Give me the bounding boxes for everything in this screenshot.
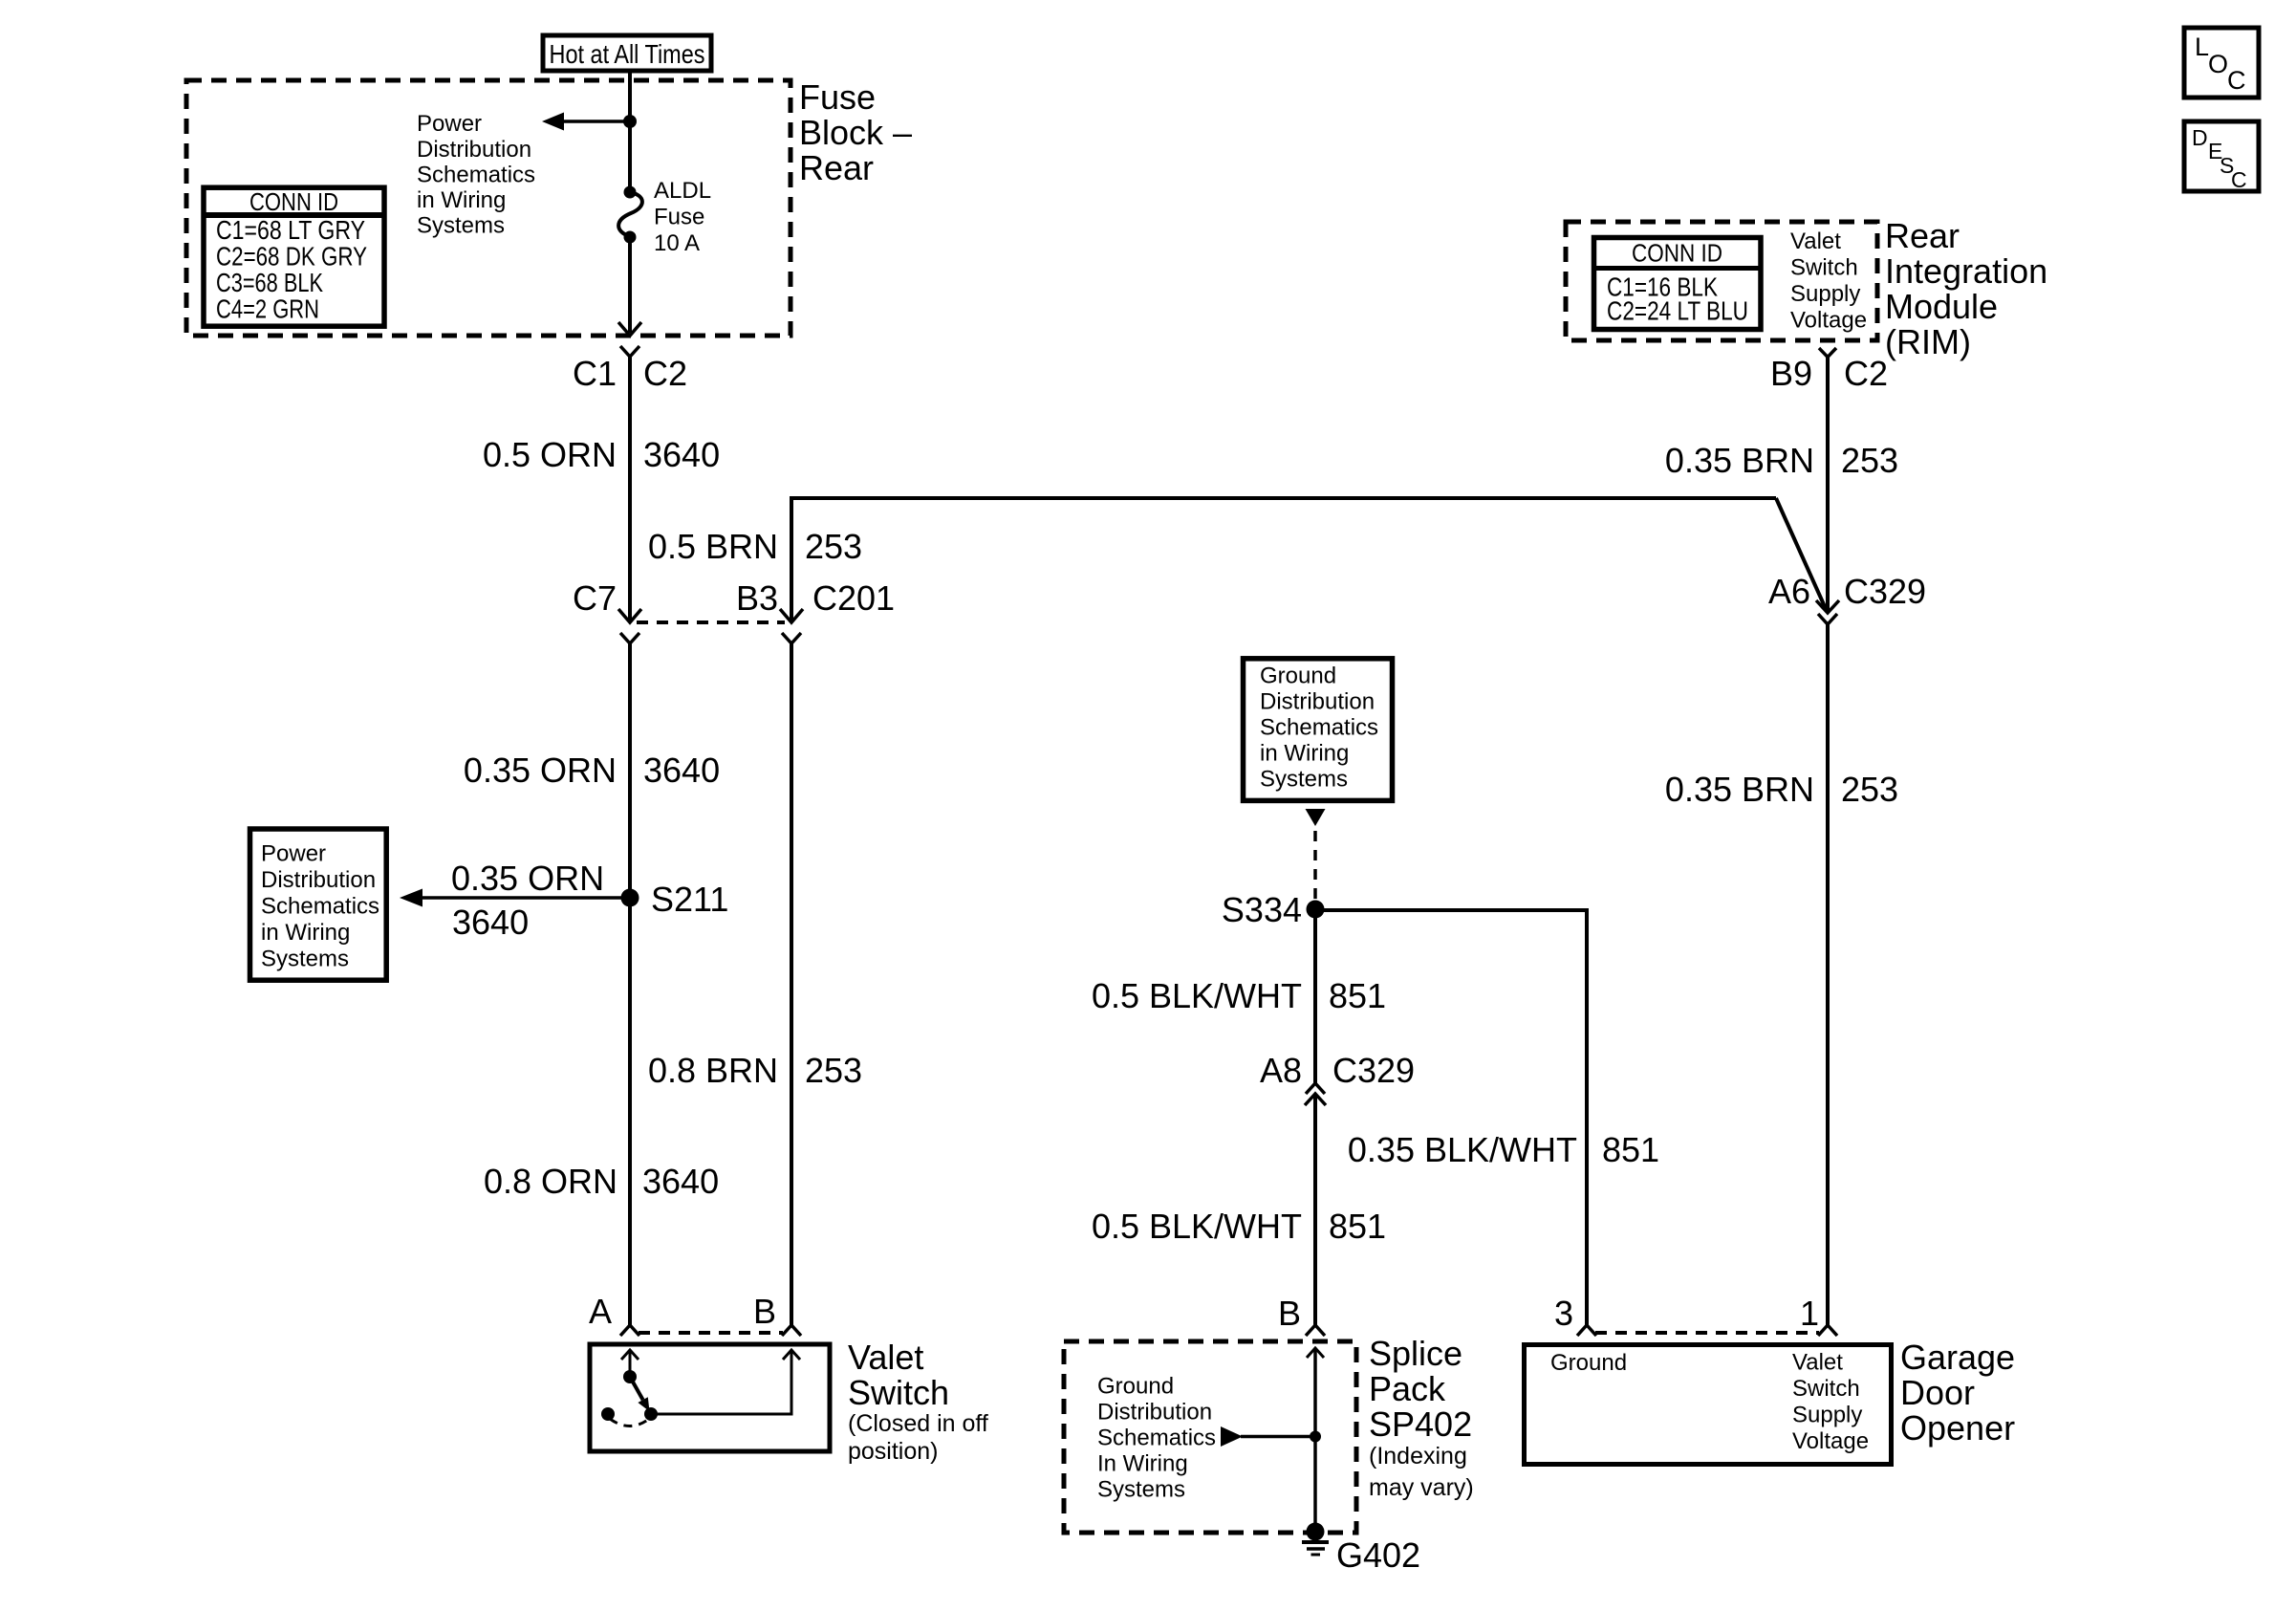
garage door opener box xyxy=(1525,1345,1892,1465)
label 0.35 ORN 3640 (branch) xyxy=(451,859,604,942)
svg-text:Supply: Supply xyxy=(1792,1403,1862,1428)
label power distribution schematics (fuse block) xyxy=(417,111,535,239)
svg-text:in Wiring: in Wiring xyxy=(261,920,350,946)
fuse F ALDL 10A xyxy=(618,186,642,244)
valet switch contact closed xyxy=(644,1407,658,1421)
svg-text:C2=68 DK GRY: C2=68 DK GRY xyxy=(216,242,367,272)
ground distribution schematics box (middle) xyxy=(1244,659,1393,801)
svg-text:0.5 BLK/WHT: 0.5 BLK/WHT xyxy=(1092,1207,1302,1246)
svg-text:Opener: Opener xyxy=(1900,1408,2015,1448)
svg-text:Power: Power xyxy=(417,111,482,137)
Hot at All Times box xyxy=(543,35,711,71)
svg-text:Systems: Systems xyxy=(1097,1477,1185,1503)
dashed wire ground distribution to S334 xyxy=(1313,831,1317,900)
arrow to ground distribution box xyxy=(1306,809,1326,826)
wire C7 to S211 xyxy=(628,643,632,898)
arrow at fuse block exit xyxy=(618,322,641,336)
svg-text:3640: 3640 xyxy=(643,435,720,474)
power distribution schematics box (left) xyxy=(250,829,387,980)
svg-text:C2: C2 xyxy=(643,354,687,393)
svg-text:Distribution: Distribution xyxy=(1097,1400,1212,1426)
svg-text:O: O xyxy=(2208,50,2228,78)
wire A6 to garage door opener pin 1 xyxy=(1826,624,1830,1325)
svg-text:CONN ID: CONN ID xyxy=(249,187,338,216)
svg-text:B: B xyxy=(1278,1294,1301,1333)
label 0.8 ORN 3640 xyxy=(484,1162,719,1201)
valet switch pole A terminal xyxy=(621,1350,639,1377)
wire A8 to splice pack B xyxy=(1313,1094,1317,1325)
pin 3 garage door opener xyxy=(1554,1294,1596,1336)
svg-text:0.35 ORN: 0.35 ORN xyxy=(451,859,604,898)
svg-text:Rear: Rear xyxy=(799,148,874,187)
arrow to power distribution schematics xyxy=(542,113,564,131)
fuse block dashed outline xyxy=(186,80,791,336)
svg-text:0.5 BRN: 0.5 BRN xyxy=(648,527,778,566)
wire C1 to C7 xyxy=(628,357,632,620)
svg-text:C7: C7 xyxy=(573,578,617,618)
svg-text:B: B xyxy=(753,1292,776,1331)
svg-text:C4=2 GRN: C4=2 GRN xyxy=(216,294,319,324)
svg-text:Ground: Ground xyxy=(1097,1374,1174,1400)
wire 0.5 BRN corner to B3 xyxy=(791,498,1776,622)
svg-text:Distribution: Distribution xyxy=(261,867,376,893)
wire hot-at-all-times to fuse xyxy=(628,71,632,192)
svg-text:G402: G402 xyxy=(1336,1535,1420,1575)
label ground distribution schematics (splice pack) xyxy=(1097,1374,1216,1503)
svg-text:C201: C201 xyxy=(812,578,895,618)
svg-text:(Closed in off: (Closed in off xyxy=(848,1410,988,1437)
svg-text:ALDL: ALDL xyxy=(654,178,711,204)
conn id table (fuse block) xyxy=(204,187,384,326)
label 0.35 ORN 3640 xyxy=(464,751,720,790)
svg-text:Integration: Integration xyxy=(1885,251,2047,291)
LOC legend box xyxy=(2184,28,2259,98)
svg-text:0.5 ORN: 0.5 ORN xyxy=(483,435,617,474)
svg-text:Ground: Ground xyxy=(1260,664,1336,689)
connector C201 dashed line xyxy=(637,620,785,624)
connector B9 C2 xyxy=(1770,348,1888,393)
svg-text:in Wiring: in Wiring xyxy=(1260,741,1349,767)
svg-text:0.35 BLK/WHT: 0.35 BLK/WHT xyxy=(1348,1130,1577,1169)
svg-text:(RIM): (RIM) xyxy=(1885,322,1971,361)
svg-text:C3=68 BLK: C3=68 BLK xyxy=(216,268,323,297)
svg-text:B9: B9 xyxy=(1770,354,1812,393)
connector C7 at C201 xyxy=(573,578,641,643)
svg-text:Valet: Valet xyxy=(1792,1350,1843,1376)
node junction to power distribution xyxy=(623,115,637,128)
svg-text:3640: 3640 xyxy=(452,903,529,942)
svg-text:0.8 BRN: 0.8 BRN xyxy=(648,1051,778,1090)
wire B3 to valet switch B xyxy=(790,643,793,1325)
pin B valet switch xyxy=(753,1292,801,1336)
svg-text:C329: C329 xyxy=(1844,572,1926,611)
label valet switch supply voltage (RIM) xyxy=(1790,229,1867,334)
wire S211 to valet switch A xyxy=(628,898,632,1325)
svg-text:Splice: Splice xyxy=(1369,1334,1462,1373)
pin 1 garage door opener xyxy=(1800,1294,1837,1336)
ground G402 xyxy=(1302,1523,1420,1576)
svg-text:Block –: Block – xyxy=(799,113,912,152)
svg-text:Switch: Switch xyxy=(848,1373,949,1412)
valet switch wire to B xyxy=(651,1350,800,1414)
svg-text:SP402: SP402 xyxy=(1369,1404,1472,1444)
svg-text:Supply: Supply xyxy=(1790,281,1860,307)
connector C1/C2 xyxy=(573,346,687,393)
svg-text:Fuse: Fuse xyxy=(654,205,704,230)
svg-text:S211: S211 xyxy=(651,880,728,919)
svg-text:C329: C329 xyxy=(1332,1051,1415,1090)
label Splice Pack SP402 xyxy=(1369,1334,1474,1501)
svg-text:Hot at All Times: Hot at All Times xyxy=(550,39,705,69)
svg-text:Module: Module xyxy=(1885,287,1998,326)
wire diagonal 0.5 BRN to A6 xyxy=(1776,498,1827,611)
label Garage Door Opener xyxy=(1900,1338,2015,1448)
svg-text:S334: S334 xyxy=(1222,890,1302,929)
svg-text:Pack: Pack xyxy=(1369,1369,1446,1408)
svg-text:0.8 ORN: 0.8 ORN xyxy=(484,1162,617,1201)
svg-text:Distribution: Distribution xyxy=(1260,689,1375,715)
garage door opener connector dashed line xyxy=(1595,1331,1819,1335)
connector A6 C329 xyxy=(1768,572,1926,624)
splice pack internal wire to G402 xyxy=(1307,1348,1324,1532)
svg-text:CONN ID: CONN ID xyxy=(1632,239,1722,268)
svg-text:253: 253 xyxy=(1841,441,1898,480)
pin A valet switch xyxy=(589,1292,639,1336)
connector B3 at C201 xyxy=(736,578,895,643)
svg-text:C1: C1 xyxy=(573,354,617,393)
label 0.5 BLK/WHT 851 (upper) xyxy=(1092,976,1386,1015)
label Rear Integration Module (RIM) xyxy=(1885,216,2047,361)
label Fuse Block - Rear xyxy=(799,77,912,187)
svg-text:C1=68 LT GRY: C1=68 LT GRY xyxy=(216,215,365,245)
wire B9 to A6 xyxy=(1826,357,1830,611)
svg-text:0.35 BRN: 0.35 BRN xyxy=(1665,441,1814,480)
pin B splice pack xyxy=(1278,1294,1325,1336)
label 0.5 ORN 3640 xyxy=(483,435,720,474)
svg-text:Distribution: Distribution xyxy=(417,137,531,163)
label 0.8 BRN 253 xyxy=(648,1051,862,1090)
wire S334 to A8 xyxy=(1313,909,1317,1084)
svg-text:Ground: Ground xyxy=(1550,1350,1627,1376)
svg-text:3640: 3640 xyxy=(642,1162,719,1201)
label 0.35 BLK/WHT 851 xyxy=(1348,1130,1659,1169)
svg-text:Schematics: Schematics xyxy=(261,894,379,920)
svg-text:Schematics: Schematics xyxy=(417,163,535,188)
svg-text:Schematics: Schematics xyxy=(1097,1426,1216,1451)
svg-text:253: 253 xyxy=(805,527,862,566)
svg-text:Valet: Valet xyxy=(848,1338,923,1377)
splice pack SP402 dashed box xyxy=(1064,1341,1356,1533)
valet switch pivot xyxy=(623,1370,637,1383)
svg-text:D: D xyxy=(2192,125,2208,150)
svg-text:851: 851 xyxy=(1329,1207,1386,1246)
node splice pack junction xyxy=(1310,1431,1321,1443)
valet switch arm xyxy=(630,1377,650,1411)
svg-text:Door: Door xyxy=(1900,1373,1975,1412)
svg-text:C2: C2 xyxy=(1844,354,1888,393)
svg-text:0.5 BLK/WHT: 0.5 BLK/WHT xyxy=(1092,976,1302,1015)
splice S211 xyxy=(621,880,729,919)
svg-text:Systems: Systems xyxy=(417,213,505,239)
valet switch box xyxy=(590,1344,830,1451)
connector A8 C329 xyxy=(1260,1051,1415,1105)
svg-text:Valet: Valet xyxy=(1790,229,1841,254)
wire fuse to C1 connector xyxy=(628,237,632,333)
svg-text:253: 253 xyxy=(1841,770,1898,809)
svg-text:may vary): may vary) xyxy=(1369,1474,1474,1501)
wire S334 to garage door opener pin 3 xyxy=(1315,910,1587,1325)
splice S334 xyxy=(1222,890,1325,929)
svg-text:Switch: Switch xyxy=(1790,255,1858,281)
svg-text:Fuse: Fuse xyxy=(799,77,876,117)
label 0.35 BRN 253 (upper) xyxy=(1665,441,1898,480)
svg-text:1: 1 xyxy=(1800,1294,1819,1333)
svg-text:851: 851 xyxy=(1329,976,1386,1015)
label 0.5 BLK/WHT 851 (lower) xyxy=(1092,1207,1386,1246)
valet switch connector dashed line xyxy=(639,1331,783,1335)
svg-text:10 A: 10 A xyxy=(654,230,700,256)
wire S211 to power distribution schematics xyxy=(418,896,630,900)
wire to power distribution schematics xyxy=(558,120,630,123)
label Valet Switch xyxy=(848,1338,988,1465)
arrow S211 to power distribution schematics xyxy=(400,889,422,907)
svg-text:C: C xyxy=(2227,66,2246,95)
label ALDL Fuse 10 A xyxy=(654,178,711,256)
svg-text:Systems: Systems xyxy=(261,947,349,972)
svg-text:3640: 3640 xyxy=(643,751,720,790)
svg-text:in Wiring: in Wiring xyxy=(417,187,506,213)
conn id table (RIM) xyxy=(1594,238,1762,330)
svg-text:A6: A6 xyxy=(1768,572,1810,611)
svg-text:Garage: Garage xyxy=(1900,1338,2015,1377)
valet switch travel arc xyxy=(610,1419,649,1426)
valet switch contact open xyxy=(601,1407,615,1421)
arrow ground distribution schematics (splice pack) xyxy=(1221,1426,1243,1447)
svg-text:253: 253 xyxy=(805,1051,862,1090)
label 0.5 BRN 253 xyxy=(648,527,862,566)
svg-text:0.35 BRN: 0.35 BRN xyxy=(1665,770,1814,809)
svg-text:Rear: Rear xyxy=(1885,216,1960,255)
DESC legend box xyxy=(2184,121,2259,192)
svg-text:C2=24 LT BLU: C2=24 LT BLU xyxy=(1607,296,1748,326)
svg-text:In Wiring: In Wiring xyxy=(1097,1451,1188,1477)
label 0.35 BRN 253 (lower) xyxy=(1665,770,1898,809)
svg-text:B3: B3 xyxy=(736,578,778,618)
svg-text:A8: A8 xyxy=(1260,1051,1302,1090)
svg-text:Switch: Switch xyxy=(1792,1376,1860,1402)
svg-text:C: C xyxy=(2231,167,2247,192)
svg-text:0.35 ORN: 0.35 ORN xyxy=(464,751,617,790)
svg-text:Schematics: Schematics xyxy=(1260,715,1378,741)
svg-text:3: 3 xyxy=(1554,1294,1573,1333)
svg-text:L: L xyxy=(2195,33,2209,61)
svg-text:Voltage: Voltage xyxy=(1792,1428,1869,1454)
svg-text:Voltage: Voltage xyxy=(1790,308,1867,334)
rear integration module dashed box xyxy=(1566,222,1877,340)
svg-text:851: 851 xyxy=(1602,1130,1659,1169)
wire to splice pack junction xyxy=(1241,1435,1315,1439)
svg-text:A: A xyxy=(589,1292,612,1331)
svg-text:position): position) xyxy=(848,1438,939,1465)
svg-text:(Indexing: (Indexing xyxy=(1369,1443,1467,1469)
svg-text:Power: Power xyxy=(261,841,326,867)
svg-text:Systems: Systems xyxy=(1260,767,1348,793)
